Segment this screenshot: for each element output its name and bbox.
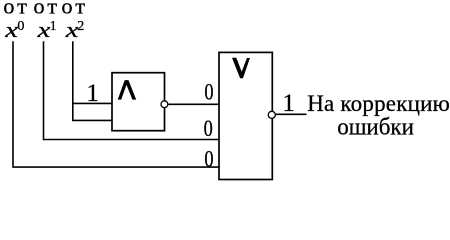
svg-text:1: 1 — [282, 90, 295, 117]
wire U2 output — [272, 113, 306, 115]
wire x0: horizontal run to OR gate input 3 — [12, 166, 219, 168]
svg-text:0: 0 — [204, 115, 213, 142]
wire x1: horizontal run to OR gate input 2 — [43, 139, 219, 141]
wire x1: vertical drop from label — [43, 41, 45, 138]
wire U1 output to OR gate input 1 — [165, 103, 220, 105]
wire x2: vertical drop from label — [72, 41, 74, 119]
svg-text:1: 1 — [86, 80, 99, 107]
svg-text:ошибки: ошибки — [337, 114, 414, 141]
svg-text:от: от — [33, 0, 60, 19]
or-gate U2 body — [219, 52, 272, 179]
svg-text:от: от — [61, 0, 88, 19]
and-gate U1 symbol ∧ — [118, 80, 137, 100]
svg-text:0: 0 — [204, 79, 213, 106]
or-gate U2 symbol V — [232, 58, 250, 78]
svg-text:от: от — [3, 0, 30, 19]
wire x0: vertical drop from label — [12, 41, 14, 166]
svg-text:0: 0 — [17, 19, 24, 34]
and-gate U1 body — [112, 73, 165, 131]
wire x2: corner branch to AND gate input 2 — [72, 119, 112, 121]
svg-text:На коррекцию: На коррекцию — [307, 91, 450, 116]
and-gate U1 inversion bubble — [161, 101, 168, 108]
svg-text:1: 1 — [50, 19, 57, 34]
or-gate U2 inversion bubble — [268, 111, 275, 118]
svg-text:2: 2 — [77, 19, 84, 34]
svg-text:0: 0 — [204, 145, 213, 172]
wire x2: tee branch to AND gate input 1 — [73, 102, 112, 104]
